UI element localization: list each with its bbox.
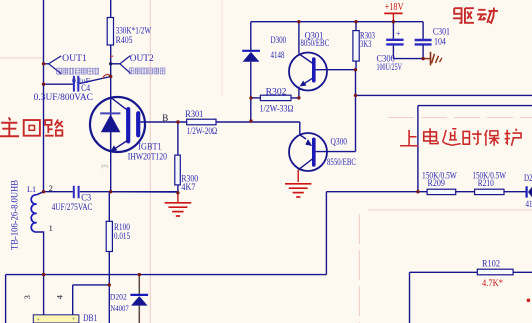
svg-text:Q300: Q300: [331, 136, 348, 146]
svg-text:D202: D202: [110, 292, 127, 302]
svg-text:4.7K*: 4.7K*: [482, 279, 503, 289]
svg-text:104: 104: [434, 36, 446, 46]
svg-text:1/2W-20Ω: 1/2W-20Ω: [187, 126, 218, 136]
svg-text:+18V: +18V: [385, 2, 404, 13]
svg-text:1/2W-33Ω: 1/2W-33Ω: [260, 103, 294, 113]
svg-text:R405: R405: [116, 35, 133, 45]
svg-text:0.3UF/800VAC: 0.3UF/800VAC: [34, 92, 93, 102]
svg-text:3: 3: [22, 295, 32, 299]
svg-text:R209: R209: [428, 178, 446, 188]
svg-text:+: +: [396, 29, 401, 38]
svg-text:330K*1/2W: 330K*1/2W: [116, 25, 152, 35]
svg-text:TB-106-26-8.0UHB: TB-106-26-8.0UHB: [10, 180, 20, 250]
svg-text:D300: D300: [271, 35, 287, 45]
svg-text:100U/25V: 100U/25V: [377, 62, 403, 72]
svg-text:4148: 4148: [271, 50, 285, 60]
svg-text:R102: R102: [482, 259, 500, 269]
svg-text:3K3: 3K3: [360, 39, 372, 49]
svg-text:4UF/275VAC: 4UF/275VAC: [52, 202, 93, 212]
svg-text:OUT2: OUT2: [130, 54, 154, 64]
svg-text:8550/EBC: 8550/EBC: [327, 157, 356, 167]
svg-text:8050/EBC: 8050/EBC: [301, 38, 330, 48]
svg-text:D2: D2: [524, 173, 532, 183]
svg-text:R301: R301: [185, 109, 203, 119]
svg-text:4: 4: [54, 294, 64, 299]
svg-text:C3: C3: [81, 192, 91, 202]
svg-text:2: 2: [49, 183, 53, 193]
svg-text:0.015: 0.015: [114, 231, 130, 241]
svg-text:1: 1: [49, 223, 53, 233]
svg-text:B: B: [162, 113, 168, 123]
svg-text:L1: L1: [27, 184, 36, 194]
svg-text:C301: C301: [433, 27, 450, 37]
svg-text:OUT1: OUT1: [62, 54, 87, 64]
svg-text:IGBT1: IGBT1: [138, 142, 161, 152]
svg-text:DB1: DB1: [83, 314, 97, 323]
svg-text:R210: R210: [478, 178, 494, 188]
svg-text:IN4007: IN4007: [108, 303, 129, 313]
svg-text:(≡): (≡): [102, 165, 108, 170]
svg-text:41: 41: [526, 199, 532, 209]
svg-text:4K7: 4K7: [181, 182, 195, 192]
svg-text:R302: R302: [266, 86, 287, 96]
svg-text:IHW20T120: IHW20T120: [128, 151, 168, 161]
